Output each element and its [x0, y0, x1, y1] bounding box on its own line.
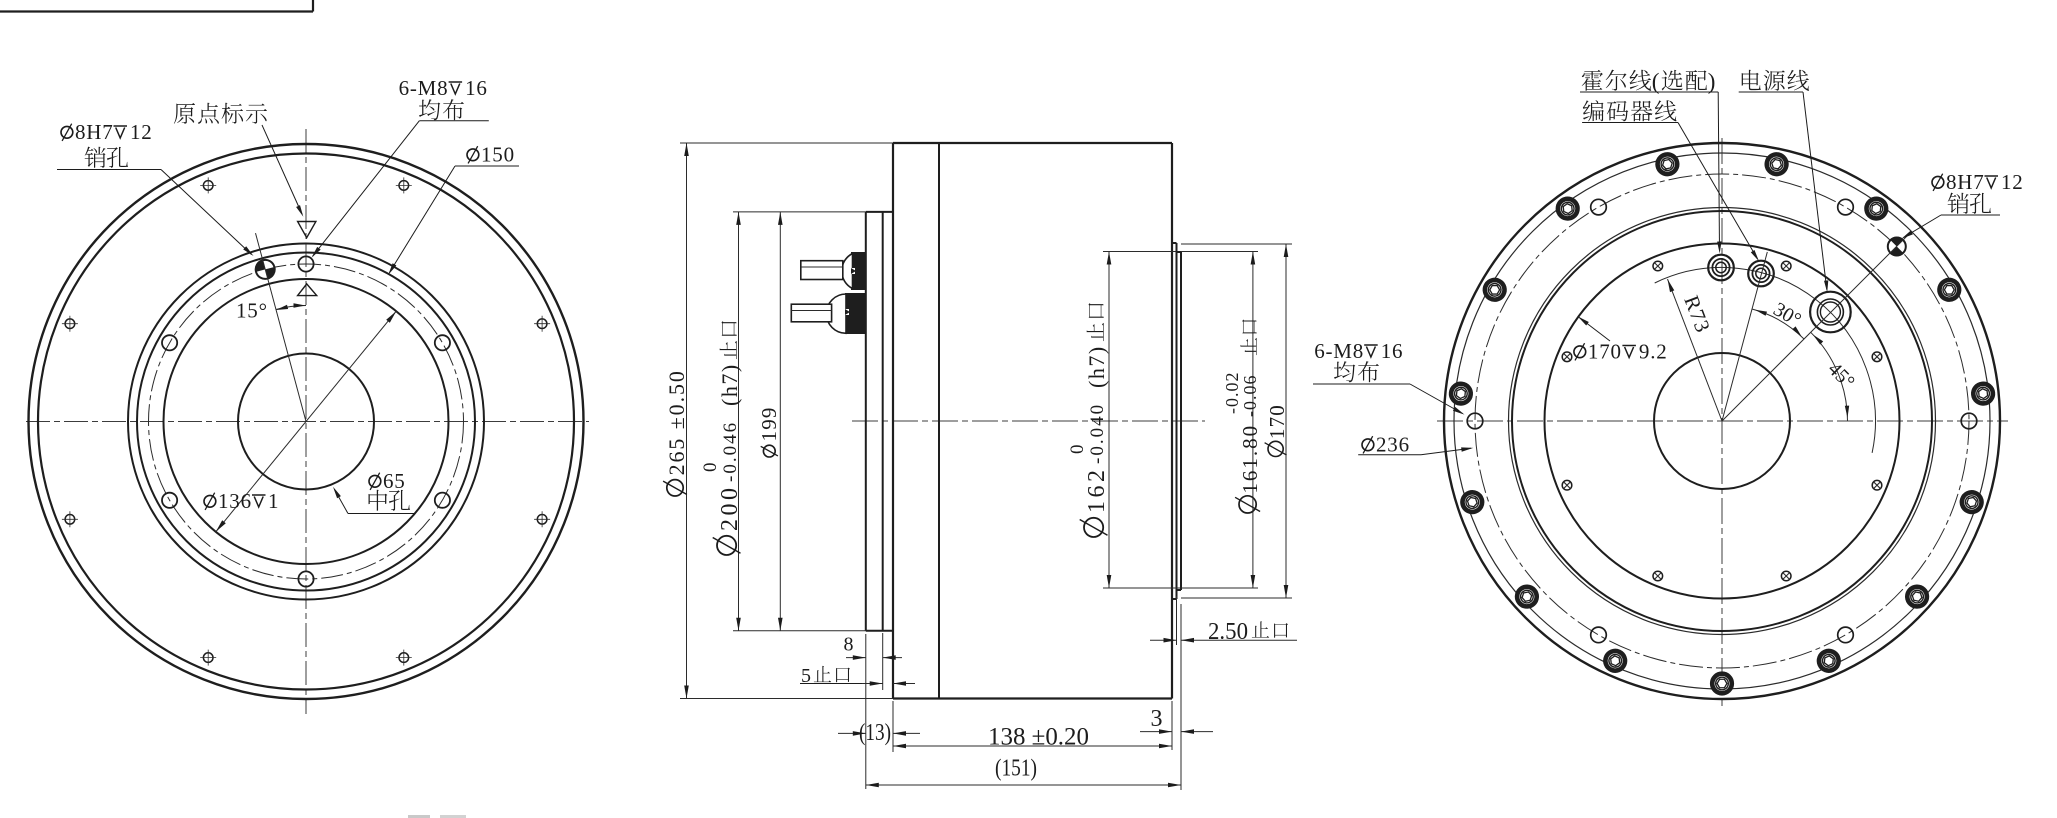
svg-text:(h7): (h7) [1084, 345, 1109, 388]
svg-text:170: 170 [1588, 340, 1622, 364]
hall cable label [1582, 70, 1603, 91]
D136 diameter dimension line (left view) [216, 311, 396, 532]
svg-text:-0.040: -0.040 [1087, 403, 1108, 464]
svg-text:170: 170 [1265, 404, 1289, 439]
svg-text:236: 236 [1376, 433, 1410, 457]
D265 dimension [680, 142, 893, 144]
6 M8 tapped holes on D236 (right view) [1838, 199, 1854, 215]
D161.80 dimension [1181, 251, 1258, 253]
hall connector circle (right view) [1748, 261, 1774, 287]
right view bolt circle D236 (dash-dot) [1475, 174, 1969, 668]
D199 dimension [779, 212, 781, 631]
left view rim circle [38, 154, 574, 690]
8 small screws on rotor (right view) [1781, 261, 1791, 271]
right view center hole D65 [1654, 353, 1790, 489]
svg-text:-0.06: -0.06 [1240, 375, 1260, 418]
8 outer bolt holes with center marks (left view) [399, 181, 409, 191]
right view centerlines [1437, 420, 2008, 422]
front ring separation line [938, 143, 940, 699]
power connector circle (right view) [1810, 292, 1851, 333]
6 M8 tapped holes on D150 (left view) [298, 256, 313, 271]
15 deg radial line through pin hole [256, 233, 307, 421]
svg-text:3: 3 [1151, 706, 1163, 732]
origin mark label [174, 103, 195, 124]
svg-text:0: 0 [700, 462, 721, 473]
pin hole D8H7 with origin quadrant symbol (left view) [254, 258, 277, 281]
138 body length dim [1171, 701, 1173, 750]
3mm rear spigot dim [1140, 731, 1172, 733]
right view outer circle [1444, 143, 2000, 699]
left view bolt circle D150 (dash-dot) [149, 264, 464, 579]
border frame corner [0, 10, 313, 12]
left view circle D162 [137, 253, 475, 591]
svg-text:-0.046: -0.046 [720, 421, 741, 482]
(13) overall left dim [865, 634, 867, 789]
svg-text:161.80: 161.80 [1238, 424, 1262, 494]
svg-text:200: 200 [717, 485, 743, 532]
15 deg radial to hall connector [1722, 252, 1767, 421]
R73 text [1679, 292, 1715, 336]
svg-text:(13): (13) [859, 720, 891, 746]
svg-text:9.2: 9.2 [1639, 340, 1668, 364]
power cable label [1742, 70, 1761, 90]
D136 label [204, 495, 216, 507]
svg-text:45°: 45° [1823, 358, 1858, 393]
svg-text:(: ( [1652, 69, 1660, 94]
right view connector pitch circle R73 arc [1655, 267, 1876, 452]
svg-text:6-M8: 6-M8 [1314, 339, 1364, 363]
svg-text:(151): (151) [995, 756, 1037, 782]
svg-text:1: 1 [268, 489, 281, 513]
R73 dimension line [1668, 279, 1723, 421]
svg-text:15°: 15° [236, 299, 268, 323]
svg-text:199: 199 [757, 406, 781, 441]
left view circle D136 groove [164, 279, 449, 564]
svg-text:-0.02: -0.02 [1222, 372, 1242, 415]
origin mark triangles above/below rim (left view) [298, 222, 316, 238]
15 deg dimension arc [276, 306, 306, 310]
D236 label [1362, 439, 1374, 451]
D8H7 pin hole label with leader (left view) [61, 126, 73, 138]
mounting flange D199/D200 (middle) [865, 212, 867, 631]
left view outer circle D265 [29, 144, 584, 699]
D150 label with leader [455, 165, 519, 167]
right view rotor edge circles [1509, 208, 1936, 635]
2.50 rear spigot depth dim [1176, 596, 1178, 645]
left view center hole D65 [238, 354, 374, 490]
svg-text:R73: R73 [1679, 292, 1715, 336]
8mm flange thickness dim [882, 633, 884, 690]
svg-text:162: 162 [1084, 467, 1110, 514]
svg-text:136: 136 [218, 489, 252, 513]
svg-text:30°: 30° [1770, 298, 1805, 331]
motor body outline (middle) [893, 142, 1172, 144]
D200 text column [700, 321, 743, 555]
svg-text:6-M8: 6-M8 [399, 76, 449, 100]
15 socket head bolts (right view) [1765, 153, 1788, 176]
svg-text:12: 12 [2001, 170, 2024, 194]
svg-text:): ) [1708, 69, 1716, 94]
30 deg dimension arc [1752, 309, 1804, 339]
right view recess circle D170 [1545, 244, 1900, 599]
D170 recess label with leader [1578, 317, 1589, 326]
45 deg radial through power connector and pin [1722, 234, 1909, 421]
middle view centerline [852, 420, 1205, 422]
right view rim inner circle [1454, 153, 1990, 689]
D200 dimension [733, 211, 866, 213]
left view circle D170 [128, 244, 484, 600]
encoder cable label [1583, 100, 1604, 121]
45 deg text [1823, 358, 1858, 393]
(151) overall length dim [1180, 604, 1182, 790]
svg-text:8H7: 8H7 [1946, 170, 1985, 194]
D265 text [663, 369, 689, 496]
D65 center-hole label with leader [348, 513, 414, 515]
svg-text:8: 8 [844, 634, 854, 656]
D8H7 pin label (right view) [1932, 176, 1944, 188]
left view centerlines [26, 421, 589, 423]
svg-text:0: 0 [1067, 444, 1088, 455]
45 deg dimension arc [1811, 332, 1848, 421]
30 deg text [1770, 298, 1805, 331]
D170 dimension (right of middle view) [1181, 243, 1292, 245]
svg-text:16: 16 [1381, 339, 1404, 363]
encoder connector circle (right view, top) [1708, 255, 1734, 281]
svg-text:138 ±0.20: 138 ±0.20 [988, 724, 1089, 751]
D162 dimension (inside body) [1103, 251, 1177, 253]
svg-text:16: 16 [465, 76, 488, 100]
power connector (lower, middle view) [845, 293, 866, 334]
encoder connector (upper, middle view) [851, 252, 866, 290]
pin hole D8H7 origin symbol (right view) [1884, 234, 1909, 259]
svg-text:12: 12 [130, 120, 153, 144]
svg-text:8H7: 8H7 [75, 120, 114, 144]
rear boss D170 / spigot D162 (middle) [1176, 243, 1178, 599]
svg-text:(h7): (h7) [717, 363, 742, 406]
svg-text:265 ±0.50: 265 ±0.50 [664, 369, 689, 475]
svg-text:65: 65 [383, 469, 406, 493]
svg-text:2.50: 2.50 [1208, 619, 1248, 645]
svg-text:150: 150 [481, 143, 515, 167]
